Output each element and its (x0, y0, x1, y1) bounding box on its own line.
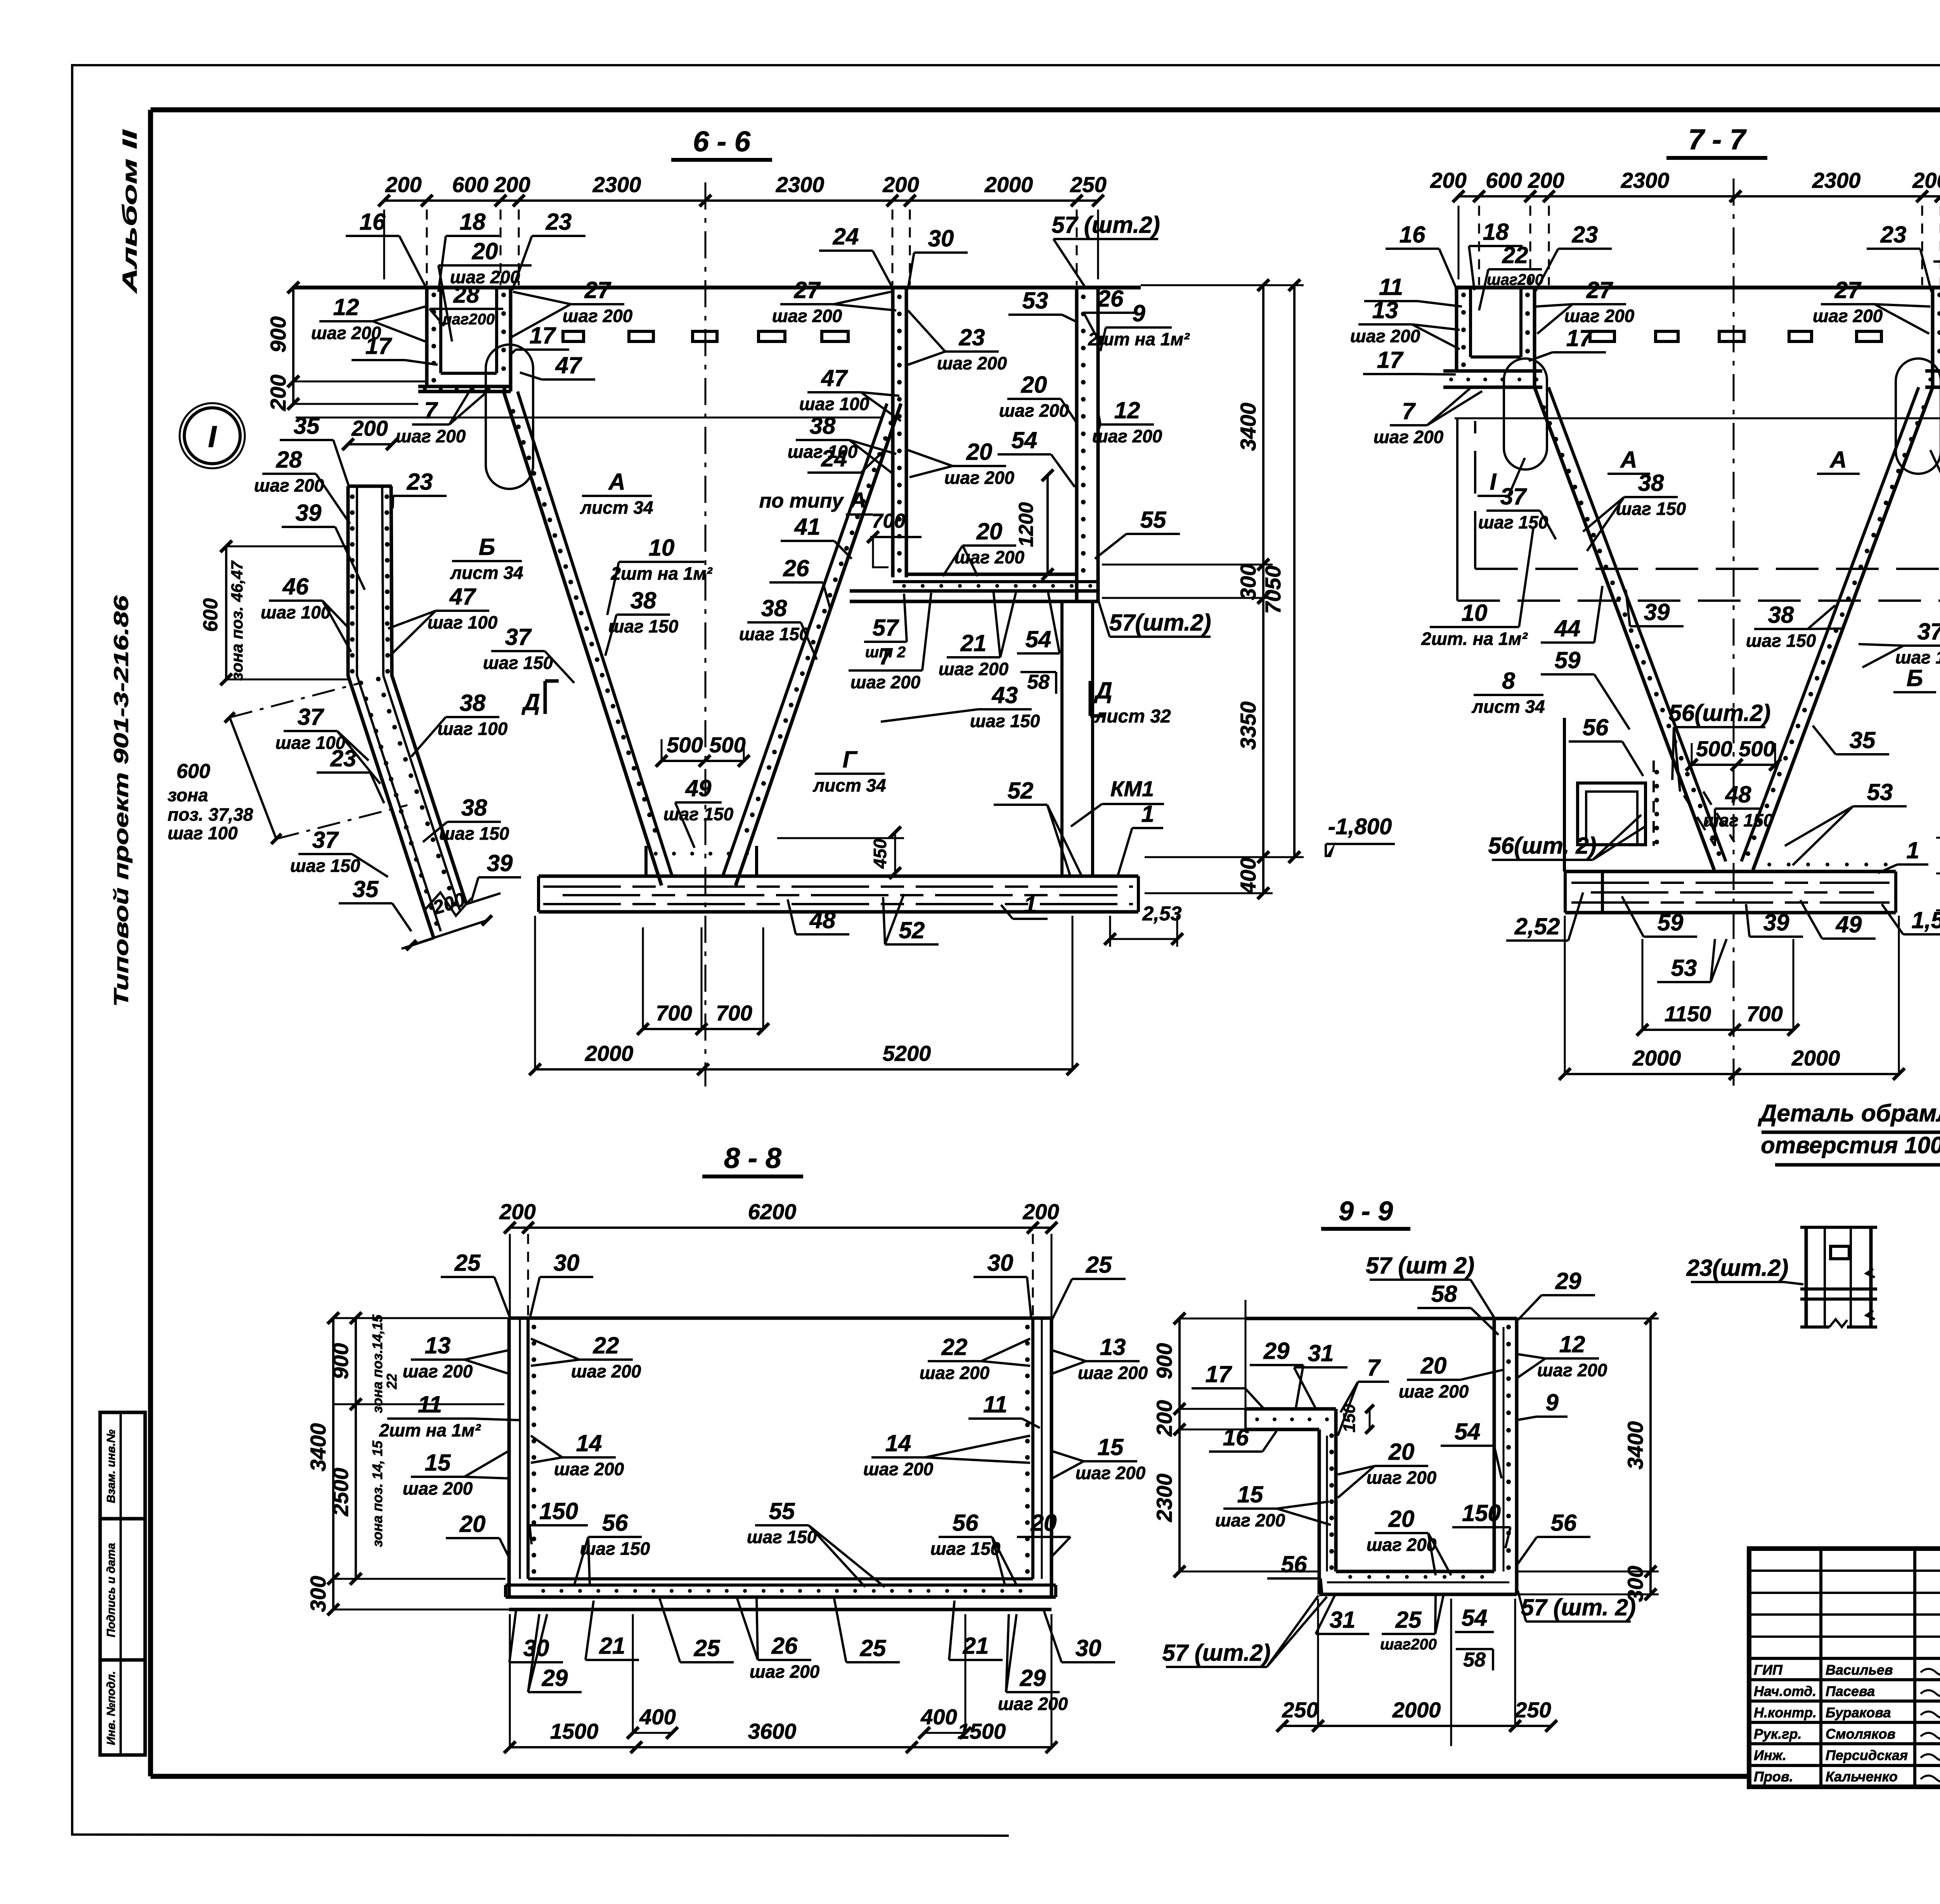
section 6-6 inner tank dims 1200 and 700 (1046, 475, 1049, 574)
svg-text:2300: 2300 (592, 172, 641, 197)
svg-text:лист 34: лист 34 (1471, 696, 1545, 717)
svg-text:48: 48 (809, 907, 836, 933)
svg-text:31: 31 (1308, 1340, 1334, 1366)
svg-text:Взам. инв.№: Взам. инв.№ (105, 1429, 118, 1503)
svg-text:шаг 150: шаг 150 (290, 856, 360, 876)
svg-text:900: 900 (1152, 1343, 1176, 1379)
svg-text:2,52: 2,52 (1514, 913, 1560, 939)
svg-text:шаг200: шаг200 (1487, 271, 1543, 288)
svg-text:49: 49 (1836, 911, 1862, 937)
svg-text:Персидская: Персидская (1826, 1747, 1908, 1763)
svg-text:300: 300 (1236, 564, 1260, 600)
svg-text:Альбом II: Альбом II (119, 129, 141, 294)
svg-text:1500: 1500 (958, 1719, 1006, 1743)
inner drawing frame (151, 107, 1940, 113)
section 9-9 bottom dims 250/2000/250 (1282, 1725, 1551, 1727)
svg-text:А: А (1829, 447, 1846, 473)
svg-text:200: 200 (385, 172, 421, 197)
svg-text:28: 28 (276, 447, 302, 473)
svg-text:шаг 150: шаг 150 (1895, 647, 1940, 667)
svg-text:600: 600 (452, 172, 488, 197)
svg-text:47: 47 (821, 365, 848, 391)
svg-text:39: 39 (487, 850, 513, 876)
svg-text:200: 200 (882, 172, 919, 197)
svg-text:30: 30 (1076, 1635, 1102, 1661)
svg-text:12: 12 (1114, 397, 1140, 423)
section 6-6 mid horizontal reference line (296, 417, 882, 419)
svg-text:1500: 1500 (550, 1719, 599, 1743)
svg-text:49: 49 (685, 775, 712, 801)
svg-text:17: 17 (530, 322, 556, 348)
svg-text:шаг 200: шаг 200 (1078, 1363, 1148, 1383)
svg-text:25: 25 (454, 1250, 481, 1276)
svg-text:шаг 200: шаг 200 (554, 1459, 624, 1479)
section 6-6 dim 500/500 at funnel mouth (662, 760, 744, 762)
svg-text:56(шт.2): 56(шт.2) (1669, 700, 1771, 726)
svg-text:500: 500 (709, 733, 745, 757)
svg-text:37: 37 (1917, 618, 1940, 644)
section 7-7 dashed pit outline (1456, 419, 1458, 601)
svg-text:200: 200 (1912, 168, 1940, 192)
svg-text:38: 38 (630, 587, 656, 613)
svg-text:20: 20 (1031, 1510, 1057, 1536)
svg-text:38: 38 (761, 595, 787, 621)
svg-text:18: 18 (1483, 219, 1509, 245)
svg-text:29: 29 (1020, 1665, 1046, 1691)
svg-text:13: 13 (1372, 297, 1398, 323)
svg-text:шаг 100: шаг 100 (168, 823, 238, 843)
svg-text:2,53: 2,53 (1142, 903, 1181, 925)
svg-text:3400: 3400 (306, 1423, 330, 1472)
svg-text:Б: Б (479, 534, 495, 560)
svg-text:10: 10 (1462, 600, 1488, 626)
svg-text:29: 29 (542, 1665, 568, 1691)
svg-text:КМ1: КМ1 (1110, 776, 1154, 801)
svg-text:57(шт.2): 57(шт.2) (1109, 610, 1211, 636)
section 6-6 top dimension line (384, 199, 1098, 202)
svg-text:3600: 3600 (748, 1719, 797, 1743)
section 9-9 right dims 3400/300 (1649, 1318, 1652, 1594)
section 7-7 funnel right slope (1753, 387, 1933, 870)
svg-text:Типовой проект 901-3-216.86: Типовой проект 901-3-216.86 (110, 595, 133, 1007)
svg-text:Г: Г (843, 747, 858, 773)
svg-text:23: 23 (546, 209, 572, 235)
svg-text:600: 600 (199, 598, 222, 632)
left bottom stamp table (100, 1412, 145, 1755)
svg-text:39: 39 (296, 500, 322, 526)
svg-text:шаг 200: шаг 200 (396, 426, 466, 446)
svg-text:шаг 100: шаг 100 (438, 719, 508, 739)
svg-text:500: 500 (667, 733, 703, 757)
svg-text:250: 250 (1514, 1698, 1551, 1722)
section 8-8 extension lines to top dim (509, 1234, 511, 1318)
section 6-6 tank left wall (891, 288, 895, 577)
svg-text:300: 300 (306, 1576, 330, 1612)
svg-text:11: 11 (983, 1391, 1007, 1417)
section 7-7 bottom dims 2000/2000 (1565, 1073, 1899, 1075)
section 9-9 left step (1245, 1407, 1332, 1411)
svg-text:18: 18 (460, 209, 486, 235)
svg-text:57 (шт.2): 57 (шт.2) (1051, 212, 1160, 238)
svg-text:зона поз. 46,47: зона поз. 46,47 (228, 560, 246, 681)
svg-text:54: 54 (1012, 427, 1038, 453)
svg-text:шаг 200: шаг 200 (1076, 1463, 1146, 1483)
svg-text:шаг 150: шаг 150 (608, 616, 679, 636)
svg-text:шаг 200: шаг 200 (998, 1694, 1068, 1714)
svg-text:24: 24 (821, 445, 847, 471)
svg-text:700: 700 (1746, 1001, 1782, 1026)
svg-text:шаг 200: шаг 200 (571, 1361, 641, 1381)
svg-text:Инв. №подл.: Инв. №подл. (105, 1671, 118, 1745)
svg-text:1: 1 (1024, 892, 1036, 918)
svg-text:9 - 9: 9 - 9 (1339, 1196, 1393, 1226)
section 8-8 left dims 3400/900/2500/300 (332, 1318, 334, 1609)
svg-text:лист 32: лист 32 (1094, 706, 1171, 727)
svg-text:30: 30 (928, 225, 954, 251)
svg-text:56(шт. 2): 56(шт. 2) (1488, 833, 1596, 859)
svg-text:А: А (850, 488, 866, 512)
svg-text:лист 34: лист 34 (450, 563, 523, 583)
svg-text:2000: 2000 (1392, 1698, 1441, 1722)
section 9-9 inner wall (1318, 1429, 1321, 1594)
svg-text:57 (шт.2): 57 (шт.2) (1162, 1640, 1270, 1666)
title block outline (1749, 1549, 1940, 1787)
svg-text:шаг 150: шаг 150 (663, 804, 734, 824)
section 6-6 tank floor (906, 573, 1077, 576)
svg-text:56: 56 (1551, 1510, 1577, 1536)
svg-text:шаг 200: шаг 200 (944, 468, 1015, 488)
svg-text:25: 25 (1395, 1607, 1422, 1633)
svg-text:450: 450 (870, 839, 890, 869)
svg-text:56: 56 (1583, 714, 1609, 740)
svg-text:400: 400 (639, 1705, 676, 1729)
detail I zone dim 600 (pos 46,47) (225, 546, 227, 679)
svg-text:23(шт.2): 23(шт.2) (1686, 1255, 1789, 1281)
svg-text:шаг 200: шаг 200 (772, 306, 842, 326)
svg-text:2000: 2000 (1791, 1046, 1840, 1070)
section 9-9 floor slab (1336, 1570, 1494, 1573)
svg-text:57 (шт 2): 57 (шт 2) (1366, 1253, 1474, 1279)
svg-text:27: 27 (1586, 277, 1613, 303)
svg-text:500: 500 (1696, 736, 1732, 761)
svg-text:26: 26 (1097, 286, 1124, 312)
section 7-7 funnel left slope (1535, 387, 1714, 870)
svg-text:7: 7 (1402, 398, 1416, 424)
svg-text:Деталь обрамления: Деталь обрамления (1758, 1100, 1940, 1127)
svg-text:22: 22 (593, 1332, 619, 1358)
svg-text:17: 17 (1566, 325, 1593, 351)
svg-text:7: 7 (1367, 1355, 1381, 1381)
svg-text:53: 53 (1022, 288, 1048, 314)
svg-text:39: 39 (1644, 599, 1670, 625)
svg-text:13: 13 (1100, 1334, 1126, 1360)
svg-text:лист 34: лист 34 (812, 775, 886, 795)
svg-text:47: 47 (449, 584, 476, 610)
svg-text:1200: 1200 (1015, 502, 1038, 547)
svg-text:шаг 200: шаг 200 (863, 1459, 934, 1479)
section 7-7 left channel wall box (1455, 288, 1458, 371)
section 7-7 lower-left niche box (1563, 718, 1566, 871)
svg-text:38: 38 (810, 413, 836, 439)
svg-text:2300: 2300 (776, 172, 824, 197)
svg-text:23: 23 (330, 745, 357, 771)
svg-text:27: 27 (1834, 277, 1862, 303)
svg-text:54: 54 (1455, 1419, 1481, 1445)
svg-text:7 - 7: 7 - 7 (1688, 123, 1747, 156)
svg-text:8 - 8: 8 - 8 (724, 1142, 782, 1174)
section 6-6 dims 700/700 under funnel (643, 1028, 763, 1030)
svg-text:зона поз. 14, 15: зона поз. 14, 15 (369, 1440, 385, 1547)
svg-text:20: 20 (966, 439, 993, 465)
svg-text:58: 58 (1463, 1649, 1486, 1671)
svg-text:5200: 5200 (883, 1041, 931, 1065)
svg-text:200: 200 (494, 172, 530, 197)
svg-text:Д: Д (521, 689, 540, 715)
svg-text:20: 20 (459, 1511, 486, 1537)
svg-text:6 - 6: 6 - 6 (693, 125, 751, 158)
svg-text:Пасева: Пасева (1826, 1683, 1875, 1699)
svg-text:шаг 200: шаг 200 (403, 1478, 473, 1499)
svg-text:2000: 2000 (1632, 1046, 1681, 1070)
svg-text:29: 29 (1263, 1338, 1290, 1364)
svg-text:шаг 200: шаг 200 (1399, 1381, 1469, 1402)
svg-text:24: 24 (833, 223, 859, 249)
section 7-7 bottom dims 1150/700 (1642, 1029, 1793, 1031)
svg-text:Смоляков: Смоляков (1826, 1726, 1895, 1742)
svg-text:шаг 200: шаг 200 (939, 659, 1009, 679)
svg-text:А: А (608, 469, 625, 495)
svg-text:15: 15 (1237, 1481, 1264, 1507)
svg-text:1150: 1150 (1665, 1001, 1711, 1026)
svg-text:6200: 6200 (748, 1199, 797, 1224)
svg-text:шаг 150: шаг 150 (970, 711, 1040, 731)
section 9-9 left dims 900/200/2300 (1178, 1318, 1181, 1571)
svg-text:41: 41 (794, 514, 821, 540)
svg-text:200: 200 (351, 416, 388, 440)
svg-text:200: 200 (499, 1199, 535, 1224)
svg-text:200: 200 (1528, 168, 1564, 192)
svg-text:26: 26 (783, 555, 809, 581)
section 6-6 right side dims 3400/300/3350/400 (1262, 285, 1264, 893)
section 6-6 funnel right slope (736, 404, 901, 885)
svg-text:900: 900 (266, 316, 290, 352)
svg-text:шаг 150: шаг 150 (483, 653, 553, 673)
svg-text:Васильев: Васильев (1826, 1662, 1893, 1678)
section 8-8 floor slab (528, 1577, 1033, 1580)
svg-text:46: 46 (282, 573, 309, 599)
section 6-6 left channel wall (hollow box) (425, 288, 429, 386)
svg-text:55: 55 (769, 1498, 795, 1524)
section 9-9 wall structure (1245, 1317, 1517, 1320)
svg-text:Инж.: Инж. (1754, 1747, 1786, 1763)
svg-text:20: 20 (976, 518, 1003, 544)
svg-text:150: 150 (1462, 1500, 1501, 1526)
svg-text:48: 48 (1725, 781, 1751, 807)
svg-text:Д: Д (1093, 677, 1112, 703)
svg-text:9: 9 (1132, 300, 1145, 326)
svg-text:900: 900 (328, 1343, 353, 1379)
svg-text:15: 15 (425, 1450, 451, 1476)
section 6-6 tank right wall (1075, 288, 1079, 601)
title block left table (1749, 1570, 1940, 1572)
svg-text:шаг 200: шаг 200 (920, 1363, 990, 1383)
svg-text:20: 20 (472, 238, 498, 264)
svg-text:1: 1 (1141, 801, 1154, 827)
svg-text:шаг200: шаг200 (1380, 1636, 1437, 1653)
svg-text:11: 11 (1379, 274, 1403, 300)
svg-text:2шт на 1м²: 2шт на 1м² (610, 563, 713, 584)
svg-text:11: 11 (418, 1391, 442, 1417)
svg-text:39: 39 (1763, 910, 1789, 936)
svg-text:31: 31 (1330, 1607, 1356, 1633)
svg-text:37: 37 (1500, 483, 1527, 509)
svg-text:1,52: 1,52 (1912, 907, 1940, 933)
svg-text:отверстия 100х300: отверстия 100х300 (1761, 1132, 1940, 1158)
svg-text:54: 54 (1025, 626, 1051, 652)
svg-text:20: 20 (1420, 1353, 1447, 1379)
svg-text:шаг 150: шаг 150 (1703, 810, 1774, 830)
section 6-6 center axis (705, 182, 707, 1086)
svg-text:шаг 150: шаг 150 (1746, 631, 1816, 651)
svg-text:2500: 2500 (328, 1468, 353, 1517)
svg-text:150: 150 (539, 1498, 578, 1524)
svg-text:400: 400 (1236, 858, 1260, 894)
svg-text:1: 1 (1906, 837, 1919, 863)
svg-text:шаг 200: шаг 200 (1215, 1510, 1285, 1530)
svg-text:29: 29 (1555, 1268, 1581, 1294)
svg-text:47: 47 (555, 352, 582, 378)
svg-text:шаг 200: шаг 200 (1537, 1360, 1607, 1380)
svg-text:38: 38 (460, 690, 486, 716)
svg-text:600: 600 (177, 760, 210, 783)
svg-text:700: 700 (872, 510, 906, 532)
svg-text:Буракова: Буракова (1826, 1705, 1891, 1720)
section 6-6 overall height dim 7050 (1293, 285, 1296, 857)
svg-text:25: 25 (1086, 1252, 1112, 1278)
svg-text:600: 600 (1486, 168, 1522, 192)
svg-text:шаг 200: шаг 200 (1350, 326, 1420, 346)
svg-text:22: 22 (1502, 242, 1528, 268)
svg-text:8: 8 (1502, 668, 1515, 694)
svg-text:56: 56 (953, 1510, 979, 1536)
svg-text:шаг 200: шаг 200 (1374, 427, 1444, 447)
svg-text:шаг 150: шаг 150 (930, 1538, 1001, 1559)
svg-text:шаг 150: шаг 150 (580, 1538, 650, 1559)
svg-text:2000: 2000 (984, 172, 1033, 197)
svg-text:шаг200: шаг200 (438, 311, 495, 328)
section 7-7 bottom slab (1565, 870, 1896, 873)
svg-text:шаг 200: шаг 200 (403, 1361, 473, 1381)
svg-text:ГИП: ГИП (1754, 1662, 1783, 1678)
svg-text:21: 21 (960, 630, 987, 656)
section 6-6 zone I capsule at wall base (486, 345, 533, 489)
svg-text:2000: 2000 (585, 1041, 634, 1065)
svg-text:3350: 3350 (1236, 702, 1260, 750)
svg-text:26: 26 (771, 1633, 798, 1659)
svg-text:шаг 150: шаг 150 (739, 624, 809, 644)
detail I wall body (348, 485, 392, 488)
svg-text:12: 12 (333, 294, 359, 320)
svg-text:3400: 3400 (1236, 403, 1260, 451)
section 6-6 bottom dims 2000/5200 (535, 1068, 1072, 1071)
svg-text:30: 30 (987, 1250, 1013, 1276)
svg-text:54: 54 (1462, 1605, 1488, 1631)
svg-text:700: 700 (716, 1001, 752, 1025)
section 7-7 funnel bottom dashes (1684, 795, 1715, 846)
svg-text:52: 52 (1008, 778, 1034, 804)
svg-text:лист 34: лист 34 (580, 497, 653, 518)
svg-text:А: А (1620, 447, 1637, 473)
svg-text:200: 200 (1022, 1199, 1059, 1224)
section 6-6 funnel left slope (504, 392, 662, 885)
svg-text:55: 55 (1140, 507, 1167, 533)
svg-text:23: 23 (959, 324, 985, 350)
svg-text:2300: 2300 (1621, 168, 1670, 192)
svg-text:700: 700 (656, 1001, 692, 1025)
svg-text:9: 9 (1545, 1389, 1559, 1415)
svg-text:7: 7 (879, 643, 893, 669)
svg-text:59: 59 (1658, 910, 1684, 936)
svg-text:Н.контр.: Н.контр. (1754, 1705, 1817, 1720)
svg-text:шаг 200: шаг 200 (750, 1661, 820, 1682)
svg-text:14: 14 (885, 1430, 911, 1456)
svg-text:56: 56 (602, 1510, 628, 1536)
svg-text:25: 25 (694, 1635, 721, 1661)
svg-text:шаг 200: шаг 200 (1564, 306, 1635, 326)
svg-text:17: 17 (1206, 1361, 1232, 1387)
svg-text:20: 20 (1388, 1506, 1415, 1532)
svg-text:20: 20 (1021, 372, 1047, 398)
section 8-8 bottom dims 400 400 (633, 1732, 672, 1734)
svg-text:17: 17 (365, 333, 392, 359)
svg-text:Пров.: Пров. (1754, 1769, 1793, 1784)
detail I wall break mark (425, 892, 471, 916)
svg-text:шаг 200: шаг 200 (937, 353, 1007, 373)
section 7-7 top slab (1455, 286, 1940, 289)
section 6-6 funnel bottom box (644, 846, 648, 876)
svg-text:шаг 150: шаг 150 (1478, 512, 1549, 532)
svg-text:38: 38 (1768, 602, 1794, 628)
svg-text:17: 17 (1377, 347, 1404, 373)
section 7-7 mid reference line (1455, 418, 1940, 419)
svg-text:шаг 100: шаг 100 (261, 602, 331, 622)
svg-text:2шт. на 1м²: 2шт. на 1м² (1421, 629, 1528, 649)
svg-text:53: 53 (1671, 955, 1697, 981)
svg-text:57 (шт. 2): 57 (шт. 2) (1521, 1594, 1636, 1620)
section 7-7 zone I capsule left (1504, 359, 1547, 470)
svg-text:250: 250 (1070, 172, 1106, 197)
section 7-7 zone In capsule right (1896, 359, 1940, 474)
svg-text:шаг 200: шаг 200 (1813, 306, 1883, 326)
svg-text:шаг 200: шаг 200 (1367, 1467, 1437, 1488)
section 7-7 top dimension line (1458, 195, 1940, 198)
svg-text:400: 400 (920, 1705, 957, 1729)
svg-text:шаг 200: шаг 200 (563, 306, 633, 326)
svg-text:-1,800: -1,800 (1328, 814, 1392, 839)
svg-text:23: 23 (407, 469, 433, 495)
svg-text:зона поз.14,15: зона поз.14,15 (369, 1314, 385, 1413)
section 7-7 dashed rebar plates (1590, 331, 1614, 341)
svg-text:Рук.гр.: Рук.гр. (1754, 1726, 1802, 1742)
svg-text:22: 22 (941, 1334, 968, 1360)
svg-text:27: 27 (794, 277, 821, 303)
svg-text:14: 14 (576, 1430, 602, 1456)
svg-text:35: 35 (294, 413, 320, 439)
svg-text:3400: 3400 (1623, 1421, 1647, 1470)
svg-text:30: 30 (554, 1250, 580, 1276)
svg-text:150: 150 (1340, 1404, 1359, 1433)
svg-text:поз. 37,38: поз. 37,38 (168, 804, 253, 825)
